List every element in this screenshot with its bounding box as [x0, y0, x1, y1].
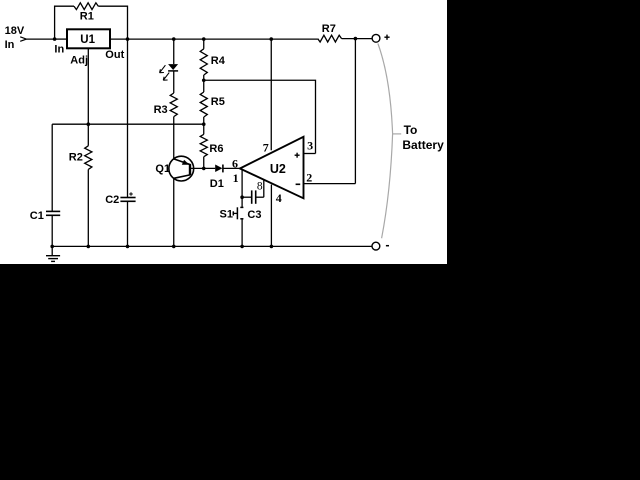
wire LED to R3: [173, 71, 175, 93]
wire R7 to plus terminal: [342, 38, 373, 40]
op-amp U2: [240, 137, 304, 199]
resistor R7: [318, 35, 342, 42]
svg-text:R5: R5: [211, 96, 225, 108]
svg-text:6: 6: [232, 157, 238, 171]
wire plus feedback to pin 2: [354, 39, 356, 184]
svg-text:To: To: [404, 123, 418, 137]
wire R3 to Q1 collector: [173, 117, 175, 159]
svg-text:Out: Out: [105, 49, 124, 61]
wire R4 branch: [203, 39, 205, 49]
wire U1 out: [110, 38, 128, 40]
wire U1 adj: [87, 48, 89, 124]
svg-text:Q1: Q1: [155, 163, 170, 175]
junction U1 out: [126, 37, 130, 41]
svg-text:18V: 18V: [5, 25, 25, 37]
svg-text:In: In: [5, 39, 15, 51]
wire C1 to ground rail: [51, 216, 53, 247]
brace to battery: [378, 44, 393, 239]
svg-text:D1: D1: [210, 178, 224, 190]
transistor Q1: [169, 156, 194, 181]
junction adj node: [87, 122, 91, 126]
junction R4 R5 pin3 node: [202, 78, 206, 82]
wire D1 to U2 input: [224, 167, 241, 169]
svg-text:R1: R1: [80, 11, 94, 23]
wire R2 to ground rail: [87, 169, 89, 246]
svg-text:R6: R6: [209, 143, 223, 155]
svg-text:R2: R2: [69, 152, 83, 164]
wire out to C2: [127, 39, 129, 197]
wire top rail: [128, 38, 318, 40]
wire pin 3 stub: [304, 153, 316, 155]
svg-text:3: 3: [307, 138, 313, 152]
svg-text:C2: C2: [105, 194, 119, 206]
terminal minus: [372, 242, 380, 250]
resistor R4: [200, 49, 207, 75]
wire C2 to ground rail: [127, 202, 129, 247]
wire R6 top: [203, 124, 205, 134]
wire Q1 emitter to ground rail: [173, 178, 175, 246]
resistor R2: [85, 146, 92, 170]
svg-text:1: 1: [233, 171, 239, 185]
wire node to pin 3: [204, 80, 316, 153]
junction ground node: [50, 245, 54, 249]
svg-text:S1: S1: [220, 209, 233, 221]
resistor R5: [200, 92, 207, 117]
wire base node: [191, 167, 215, 169]
junction R2 rail: [87, 245, 91, 249]
LED indicator diode: [168, 64, 178, 70]
resistor R1: [74, 3, 98, 10]
junction input node: [53, 37, 57, 41]
wire S1 to ground rail: [241, 219, 243, 247]
wire pin 4 to ground rail: [270, 185, 272, 247]
wire adj to R2: [87, 124, 89, 146]
wire R1 right leg: [98, 6, 127, 39]
junction C3 node: [240, 195, 244, 199]
wire R1 left leg: [55, 6, 74, 39]
capacitor C1: [46, 210, 60, 212]
svg-text:2: 2: [306, 170, 312, 184]
terminal plus: [372, 34, 380, 42]
junction S1 rail: [240, 245, 244, 249]
svg-text:Adj: Adj: [70, 54, 88, 66]
LED light arrows: [160, 65, 170, 80]
capacitor C2: [120, 197, 135, 199]
wire pin 2: [304, 183, 356, 185]
junction C2 rail: [126, 245, 130, 249]
resistor R6: [200, 134, 207, 156]
wire input: [26, 38, 54, 40]
svg-text:4: 4: [276, 191, 282, 205]
wire R6 to base node: [203, 157, 205, 169]
svg-text:In: In: [54, 43, 64, 55]
svg-text:8: 8: [257, 180, 263, 192]
wire R4 to pin3 node: [203, 75, 205, 80]
wire U2 output down: [241, 170, 243, 207]
svg-text:U1: U1: [80, 34, 95, 46]
resistor R3: [170, 93, 177, 117]
ground: [51, 246, 53, 255]
svg-text:R7: R7: [322, 23, 336, 35]
switch S1: [240, 206, 243, 208]
junction LED branch: [172, 37, 176, 41]
regulator U1: [67, 29, 110, 48]
junction Q1 base node: [202, 167, 206, 171]
input terminal: [20, 37, 26, 42]
capacitor C3: [242, 196, 251, 198]
svg-text:U2: U2: [270, 162, 286, 176]
wire C1 branch: [51, 124, 53, 211]
wire R5 to adj node: [203, 117, 205, 124]
svg-text:R3: R3: [154, 104, 168, 116]
junction Q1 rail: [172, 245, 176, 249]
wire pin 8 stub: [263, 180, 265, 197]
junction battery plus node: [354, 37, 358, 41]
svg-text:7: 7: [263, 141, 269, 155]
wire U1 in: [55, 38, 67, 40]
junction pin4 rail: [270, 245, 274, 249]
wire adj node rail: [52, 123, 204, 125]
svg-text:Battery: Battery: [402, 138, 444, 152]
svg-text:C1: C1: [30, 210, 44, 222]
wire pin 7 supply: [270, 39, 272, 150]
wire LED branch: [173, 39, 175, 64]
svg-text:R4: R4: [211, 55, 226, 67]
junction R4 branch: [202, 37, 206, 41]
svg-text:C3: C3: [247, 209, 261, 221]
schematic canvas: [0, 0, 447, 264]
diode D1: [215, 165, 222, 173]
junction pin7 branch: [269, 37, 273, 41]
wire ground rail: [52, 245, 372, 247]
junction R5 R6 node: [202, 122, 206, 126]
wire node to R5: [203, 80, 205, 92]
